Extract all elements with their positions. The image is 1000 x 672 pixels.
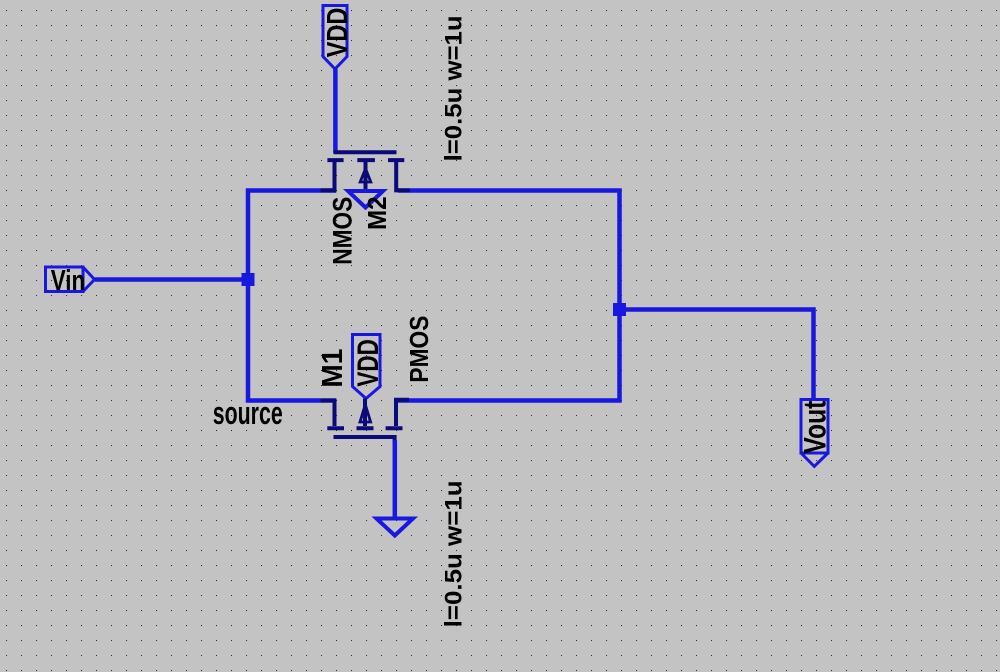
input pin Vin <box>46 267 95 292</box>
wire output node to Vout <box>620 310 814 400</box>
svg-text:VDD: VDD <box>352 339 385 387</box>
wire left branch (top rail, left vertical, bottom rail) <box>248 191 336 401</box>
svg-text:l=0.5u w=1u: l=0.5u w=1u <box>441 480 468 627</box>
svg-text:M2: M2 <box>362 197 392 231</box>
junction output node <box>613 303 626 316</box>
ground (M1 gate) <box>377 519 414 536</box>
svg-text:Vout: Vout <box>797 400 833 453</box>
ground (M2 bulk) <box>348 191 383 208</box>
transistor M2 (NMOS) <box>321 152 411 190</box>
svg-text:PMOS: PMOS <box>404 316 434 383</box>
svg-text:source: source <box>213 395 283 431</box>
svg-text:Vin: Vin <box>51 265 85 297</box>
transistor M1 (PMOS) <box>321 399 410 445</box>
wire VDD to M2 gate <box>333 69 338 153</box>
output pin Vout <box>801 400 828 467</box>
vdd flag VDD (at M1 bulk) <box>353 335 381 399</box>
svg-text:M1: M1 <box>317 349 349 388</box>
vdd flag VDD (at M2 gate) <box>323 6 347 70</box>
svg-text:l=0.5u w=1u: l=0.5u w=1u <box>441 15 468 161</box>
wire M1 gate to ground <box>393 440 398 518</box>
wire Vin to input node <box>95 277 248 282</box>
svg-text:NMOS: NMOS <box>328 197 358 265</box>
junction input node <box>242 273 255 286</box>
svg-text:VDD: VDD <box>322 8 354 58</box>
wire right branch (top rail, right vertical, bottom rail) <box>398 191 620 401</box>
